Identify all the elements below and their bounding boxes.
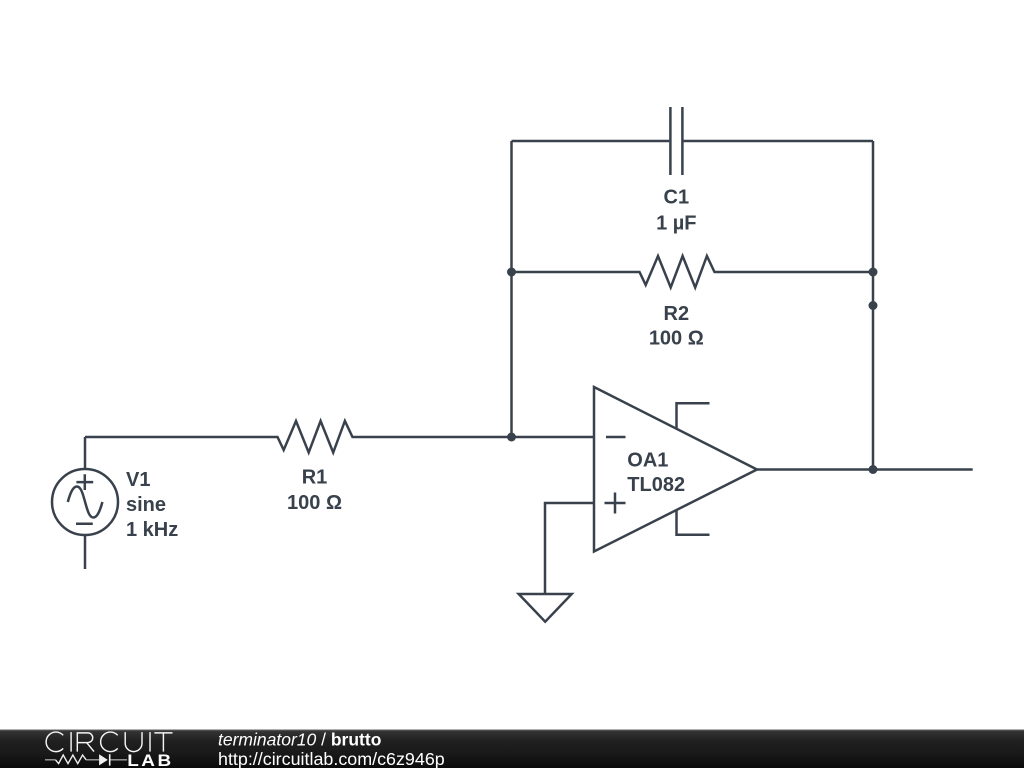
svg-text:http://circuitlab.com/c6z946p: http://circuitlab.com/c6z946p: [218, 749, 445, 768]
svg-text:terminator10 / brutto: terminator10 / brutto: [218, 730, 381, 750]
svg-text:LAB: LAB: [127, 751, 173, 768]
svg-text:100 Ω: 100 Ω: [649, 328, 704, 350]
svg-text:1 kHz: 1 kHz: [126, 519, 178, 541]
svg-text:sine: sine: [126, 494, 166, 516]
svg-text:R1: R1: [302, 467, 328, 489]
svg-text:C1: C1: [664, 187, 690, 209]
svg-text:100 Ω: 100 Ω: [287, 492, 342, 514]
svg-text:1 µF: 1 µF: [656, 212, 696, 234]
svg-text:OA1: OA1: [627, 450, 668, 472]
svg-text:R2: R2: [664, 303, 690, 325]
svg-text:V1: V1: [126, 469, 150, 491]
svg-text:TL082: TL082: [627, 474, 685, 496]
